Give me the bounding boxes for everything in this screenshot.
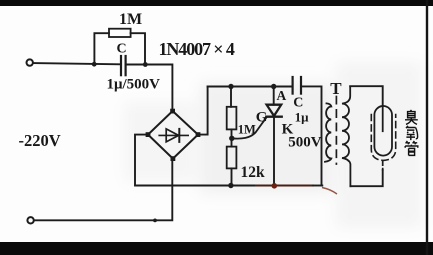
- node: small blob on bottom input wire: [153, 219, 157, 223]
- ozone tube inner electrode: [382, 106, 384, 131]
- wire: secondary bottom to ozone tube: [350, 170, 382, 186]
- transformer T primary winding: [325, 103, 331, 161]
- top black border bar: [0, 0, 433, 6]
- terminal upper-left: [27, 59, 33, 65]
- wire: bottom input run: [35, 159, 173, 221]
- node: junction dot 12k/rail: [228, 183, 233, 188]
- svg-text:1N4007 × 4: 1N4007 × 4: [159, 39, 235, 59]
- capacitor C2 left plate: [292, 77, 294, 94]
- label ozone tube Chinese chars drawn as strokes: [405, 110, 418, 155]
- svg-text:1M: 1M: [238, 122, 256, 136]
- capacitor C1 right plate: [124, 56, 126, 75]
- thyristor VS gate wire: [232, 117, 267, 139]
- char 管: [405, 141, 418, 155]
- svg-text:C: C: [293, 96, 303, 111]
- svg-text:C: C: [117, 42, 127, 57]
- wire: DC- rail red-tinted segment: [256, 184, 313, 186]
- wire: secondary top to ozone tube: [350, 86, 383, 106]
- svg-text:1μ/500V: 1μ/500V: [107, 77, 161, 93]
- bridge corner pad right: [196, 132, 201, 137]
- wire: rail from C2 to transformer primary: [303, 86, 322, 185]
- bridge corner pad top: [170, 109, 175, 114]
- wire: cap to corner, down to bridge top: [127, 65, 173, 112]
- node: junction dot rail/R2 top: [228, 84, 233, 89]
- capacitor C1 left plate: [120, 56, 122, 75]
- wire: DC+ top rail: [208, 86, 291, 88]
- wire: parallel loop left riser: [94, 33, 109, 64]
- bridge corner pad bottom: [171, 156, 176, 161]
- resistor R2 1M box: [227, 107, 237, 130]
- bridge inner diode lead line: [159, 134, 188, 136]
- terminal lower-left: [27, 217, 33, 223]
- node: junction dot rail/anode: [271, 84, 276, 89]
- wire: between R2 and gate node: [231, 129, 233, 146]
- resistor R3 12k box: [227, 147, 237, 169]
- transformer T secondary winding with leads: [342, 86, 350, 186]
- bridge corner pad left: [146, 132, 151, 137]
- char 氧: [406, 126, 418, 140]
- thyristor VS triangle: [267, 105, 282, 116]
- wire: bridge left corner to DC- rail: [135, 135, 256, 186]
- svg-text:G: G: [256, 110, 268, 126]
- thyristor VS cathode bar: [266, 115, 281, 117]
- svg-text:1μ: 1μ: [295, 109, 310, 124]
- transformer T core dashed line: [335, 97, 337, 165]
- node: junction dot cathode/rail (reddish): [272, 183, 278, 189]
- bridge rectifier diamond: [148, 111, 198, 159]
- wire: top input to capacitor: [34, 63, 121, 64]
- bridge inner diode cathode bar: [178, 129, 180, 142]
- right border line: [426, 0, 428, 255]
- wire: bridge right corner up to DC+ rail: [198, 87, 208, 135]
- svg-text:12k: 12k: [241, 164, 266, 181]
- thyristor VS cathode wire: [273, 117, 275, 186]
- wire: 1M divider branch top: [230, 87, 232, 107]
- wire: DC- rail black end to primary corner: [313, 185, 322, 187]
- bridge inner diode triangle: [166, 129, 178, 142]
- svg-text:-220V: -220V: [19, 131, 61, 150]
- svg-text:1M: 1M: [119, 11, 142, 28]
- svg-text:A: A: [277, 88, 287, 103]
- wire: 12k to DC- rail: [231, 168, 233, 185]
- wire: parallel loop right riser: [131, 33, 145, 64]
- svg-text:500V: 500V: [288, 135, 322, 151]
- ozone tube outer electrode dashed jacket: [371, 115, 395, 161]
- capacitor C2 right plate: [300, 77, 302, 94]
- char 臭: [405, 110, 418, 124]
- node: junction dot cap/loop right: [143, 62, 148, 67]
- resistor R1 1M box: [109, 29, 131, 37]
- node: junction dot input/loop left: [92, 62, 97, 67]
- svg-text:T: T: [330, 79, 342, 98]
- red smudge under rail corner: [322, 188, 337, 195]
- thyristor VS anode wire: [273, 87, 275, 105]
- node: gate junction dot: [229, 136, 234, 141]
- ozone tube bottom dashed lead: [382, 161, 384, 170]
- ozone tube glass capsule: [374, 106, 392, 156]
- bottom black border bar: [0, 242, 433, 255]
